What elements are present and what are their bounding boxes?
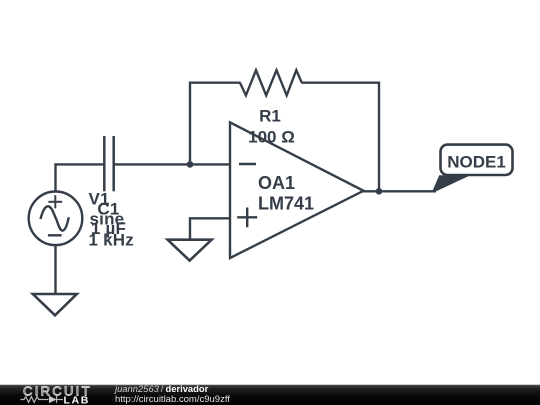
svg-text:R1: R1 [259, 106, 281, 125]
ground below V1 [33, 294, 77, 315]
svg-text:OA1: OA1 [258, 173, 295, 193]
resistor R1 [240, 70, 302, 95]
wire: non-inverting input to ground [190, 218, 230, 240]
svg-text:1 µF: 1 µF [91, 219, 126, 238]
voltage source V1 circle [29, 192, 83, 246]
op-amp inverting input marker [239, 163, 256, 165]
capacitor C1 [104, 136, 113, 191]
V1 sine symbol [41, 206, 69, 230]
wire: op-amp output to NODE1 flag [362, 190, 436, 192]
svg-text:juann2563: juann2563 [113, 383, 160, 394]
op-amp OA1 triangle [230, 122, 364, 258]
NODE1 flag box [441, 145, 513, 175]
node junction at output [376, 188, 383, 195]
svg-text:http://circuitlab.com/c9u9zff: http://circuitlab.com/c9u9zff [115, 394, 230, 405]
op-amp non-inverting input marker [237, 208, 257, 228]
V1 plus sign [48, 195, 62, 208]
wire: V1 bottom lead to ground [54, 245, 56, 295]
NODE1 flag pointer [432, 175, 470, 191]
svg-text:C1: C1 [97, 199, 119, 218]
wire: C1 right plate to op-amp inverting input [114, 163, 230, 165]
footer logo resistor and diode glyph [21, 396, 64, 403]
wire: R1 to output node (top right and down) [302, 83, 380, 192]
svg-text:/: / [161, 383, 164, 394]
ground at op-amp non-inverting input [168, 240, 212, 261]
node junction at inverting input [187, 161, 194, 168]
svg-text:LM741: LM741 [258, 193, 314, 213]
V1 minus sign [48, 234, 62, 236]
svg-text:LAB: LAB [64, 395, 90, 405]
wire: feedback left leg (inverting node up and right to R1) [190, 83, 241, 165]
svg-text:NODE1: NODE1 [447, 153, 506, 172]
footer bar [0, 385, 540, 405]
wire: V1 top lead to capacitor C1 [56, 164, 105, 192]
svg-text:100 Ω: 100 Ω [248, 128, 295, 147]
svg-text:derivador: derivador [166, 383, 209, 394]
